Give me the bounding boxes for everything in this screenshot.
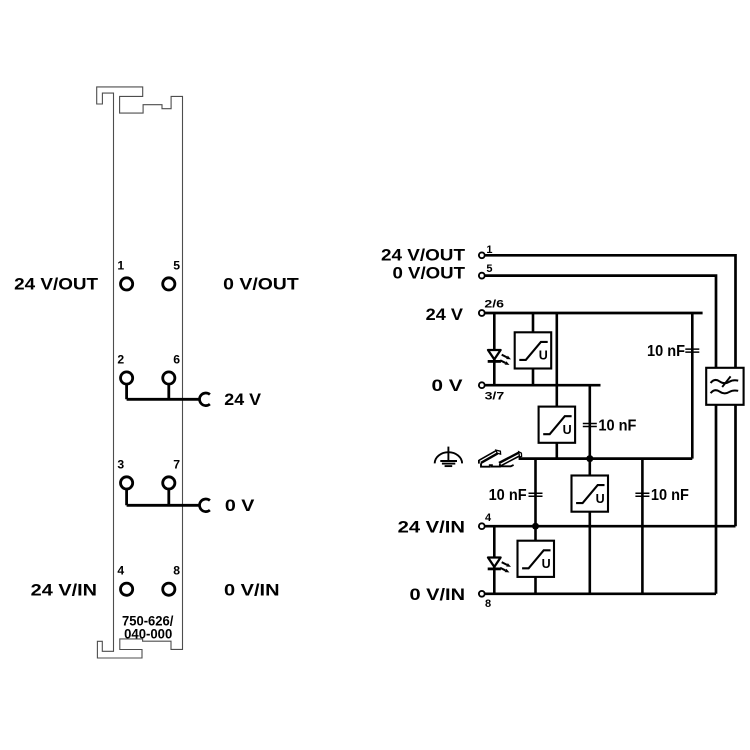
label C2 10 nF xyxy=(489,487,527,504)
pin 5 contact xyxy=(163,278,175,290)
wire 0V rail (pins 3/7) xyxy=(485,384,600,387)
pin 6 number xyxy=(173,353,180,367)
capacitor C4 10nF xyxy=(635,493,649,496)
label 0 V/IN (module right) xyxy=(224,581,280,600)
pin 3 contact xyxy=(121,477,133,489)
wire capacitor C3 branch xyxy=(691,313,694,459)
label 24 V/IN (schematic) xyxy=(398,517,465,536)
label 0 V (schematic) xyxy=(432,376,464,395)
label 0 V (feed) xyxy=(225,497,255,515)
svg-text:24 V/OUT: 24 V/OUT xyxy=(381,246,466,265)
EMC filter box xyxy=(706,368,743,405)
capacitor C2 10nF xyxy=(529,493,543,496)
pin 3 number xyxy=(117,457,124,471)
DIN rail symbol xyxy=(479,450,522,467)
24V feed clamp connector xyxy=(200,393,210,406)
svg-text:10 nF: 10 nF xyxy=(651,487,689,504)
svg-text:6: 6 xyxy=(173,353,180,367)
label 24 V/OUT (module left) xyxy=(14,275,99,294)
svg-text:040-000: 040-000 xyxy=(124,626,172,641)
wire LED1 branch xyxy=(493,313,496,385)
pins 3/7 label xyxy=(485,391,505,403)
pin 5 label xyxy=(486,263,492,275)
pin 8 contact xyxy=(163,583,175,595)
svg-text:24 V/OUT: 24 V/OUT xyxy=(14,275,99,294)
LED D2 xyxy=(488,558,511,573)
label 0 V/OUT (module right) xyxy=(223,275,299,294)
svg-text:4: 4 xyxy=(117,564,124,578)
LED D1 xyxy=(488,350,511,365)
module 750-626 body outline xyxy=(97,87,183,658)
svg-text:5: 5 xyxy=(173,259,180,273)
capacitor C1 10nF xyxy=(583,424,597,427)
pin 6 contact xyxy=(163,372,175,384)
svg-text:8: 8 xyxy=(173,564,180,578)
terminal pin 1 xyxy=(479,252,485,258)
junction dot 24V/IN rail xyxy=(532,523,539,530)
pin 2 number xyxy=(117,353,124,367)
svg-text:5: 5 xyxy=(486,263,492,275)
svg-text:10 nF: 10 nF xyxy=(598,418,636,435)
svg-text:24 V: 24 V xyxy=(224,391,261,409)
terminal pin 8 xyxy=(479,591,485,597)
wire filter U1 branch xyxy=(532,313,535,385)
svg-text:0 V/IN: 0 V/IN xyxy=(224,581,280,600)
terminal pins 3/7 xyxy=(479,382,485,388)
label C4 10 nF xyxy=(651,487,689,504)
filter U1 xyxy=(515,332,552,368)
svg-text:0 V: 0 V xyxy=(225,497,255,515)
pin 4 number xyxy=(117,564,124,578)
pin 4 contact xyxy=(121,583,133,595)
label C1 10 nF xyxy=(598,418,636,435)
capacitor C3 10nF xyxy=(685,349,699,352)
label 0 V/IN (schematic) xyxy=(410,585,466,604)
svg-text:24 V/IN: 24 V/IN xyxy=(31,581,97,600)
wire capacitor C4 branch xyxy=(641,459,644,594)
wire earth rail xyxy=(519,457,693,460)
svg-text:3/7: 3/7 xyxy=(485,391,505,403)
filter U2 xyxy=(539,407,576,443)
wire capacitor C1 / filter U3 branch xyxy=(588,385,591,594)
terminal pin 5 xyxy=(479,273,485,279)
svg-text:2: 2 xyxy=(117,353,124,367)
wire 24V rail (pins 2/6) xyxy=(485,312,702,315)
pin 1 label xyxy=(486,244,492,256)
svg-text:7: 7 xyxy=(173,457,180,471)
pin 8 number xyxy=(173,564,180,578)
module part number 750-626/040-000 xyxy=(122,613,174,641)
label 24 V (feed) xyxy=(224,391,261,409)
wire capacitor C2 / filter U4 branch xyxy=(534,459,537,594)
wire 24V/IN rail (pin 4) xyxy=(485,525,735,528)
svg-text:4: 4 xyxy=(485,512,492,524)
label 24 V/OUT (schematic) xyxy=(381,246,466,265)
pin 1 number xyxy=(117,259,124,273)
pin 2 contact xyxy=(121,372,133,384)
terminal pins 2/6 xyxy=(479,310,485,316)
svg-text:8: 8 xyxy=(485,598,491,610)
svg-text:0 V/OUT: 0 V/OUT xyxy=(393,263,466,282)
wire jumper pins 3-7 to 0V feed xyxy=(127,489,201,505)
svg-text:10 nF: 10 nF xyxy=(489,487,527,504)
svg-text:2/6: 2/6 xyxy=(484,299,504,311)
svg-text:1: 1 xyxy=(117,259,124,273)
pin 1 contact xyxy=(121,278,133,290)
wire pin5 0V/OUT to filter and 0V/IN rail xyxy=(485,276,716,594)
filter U4 xyxy=(518,541,555,577)
wire LED2 branch xyxy=(493,526,496,594)
pin 4 label xyxy=(485,512,492,524)
junction dot earth rail xyxy=(586,455,593,462)
earth ground symbol xyxy=(435,447,462,467)
0V feed clamp connector xyxy=(200,499,210,512)
pin 5 number xyxy=(173,259,180,273)
wire filter U2 branch xyxy=(555,313,558,459)
pin 7 contact xyxy=(163,477,175,489)
label 24 V/IN (module left) xyxy=(31,581,97,600)
svg-text:0 V: 0 V xyxy=(432,376,464,395)
pins 2/6 label xyxy=(484,299,504,311)
svg-text:0 V/OUT: 0 V/OUT xyxy=(223,275,299,294)
svg-text:0 V/IN: 0 V/IN xyxy=(410,585,466,604)
terminal pin 4 xyxy=(479,523,485,529)
svg-text:1: 1 xyxy=(486,244,492,256)
svg-text:10 nF: 10 nF xyxy=(647,343,685,360)
wire pin1 24V/OUT to filter and 24V/IN rail xyxy=(485,255,735,526)
svg-text:3: 3 xyxy=(117,457,124,471)
wire 0V/IN rail (pin 8) xyxy=(485,592,716,595)
pin 8 label xyxy=(485,598,491,610)
svg-text:24 V: 24 V xyxy=(426,305,464,324)
svg-text:24 V/IN: 24 V/IN xyxy=(398,517,465,536)
label C3 10 nF xyxy=(647,343,685,360)
filter U3 xyxy=(572,476,609,512)
pin 7 number xyxy=(173,457,180,471)
label 0 V/OUT (schematic) xyxy=(393,263,466,282)
wire jumper pins 2-6 to 24V feed xyxy=(127,384,201,399)
label 24 V (schematic) xyxy=(426,305,464,324)
